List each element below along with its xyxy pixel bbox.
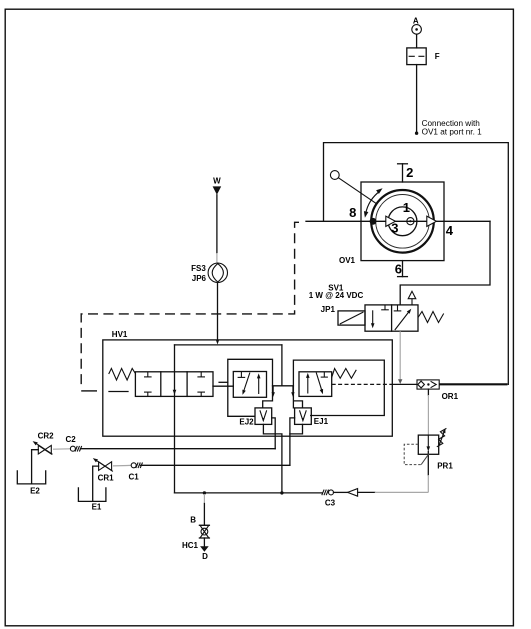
node A	[412, 17, 422, 35]
svg-text:3: 3	[391, 221, 398, 236]
PR1 adjustable spring	[437, 428, 447, 446]
svg-text:4: 4	[446, 223, 454, 238]
wire pilot line solid into OR1 left	[392, 383, 417, 385]
wire F down to connection point	[415, 65, 418, 135]
junction at HC1 drop	[203, 491, 206, 494]
svg-text:C2: C2	[65, 435, 76, 444]
check valve CR2	[33, 432, 55, 455]
wire loop around pilot valve 2 (EJ1 branch)	[293, 360, 384, 415]
junction at EJ2 drain	[280, 491, 283, 494]
pilot arrow into valve EJ2 side	[272, 386, 275, 397]
pilot valve 2 (right) body	[299, 372, 332, 397]
dashed enclosure boundary	[81, 222, 299, 386]
SV1 left cell blocked port T	[381, 305, 389, 310]
svg-text:F: F	[435, 52, 440, 61]
node: filled dot on left of OV1 circle	[370, 218, 377, 225]
wire EJ2 bottom to drain	[263, 424, 282, 493]
coupling C3	[322, 490, 336, 508]
SV1 left cell down arrow	[371, 310, 375, 328]
svg-text:CR1: CR1	[98, 474, 115, 483]
pilot valve 1 (left) body	[233, 372, 266, 398]
OV1 center port symbol (port 1)	[407, 218, 414, 225]
wire CR2 to tank E2	[32, 450, 39, 484]
valve HV1 main spool (3-position)	[135, 372, 213, 397]
wire C2 line to EJ2	[81, 448, 276, 450]
PR1 internal flow arrow	[427, 435, 431, 451]
flow indicator FS3 / JP6	[191, 263, 227, 283]
main spool seat line	[109, 391, 128, 393]
wire A to F	[416, 34, 418, 48]
dashed pilot line to OR1	[332, 383, 393, 385]
wire pilot supply header inside HV1	[175, 344, 282, 346]
wire pilot cross connection	[273, 385, 294, 387]
valve OV1 outer circle	[371, 190, 434, 253]
wire drain junction down to HC1	[203, 494, 205, 525]
wire W down to FS3	[216, 195, 218, 263]
svg-text:B: B	[190, 516, 196, 525]
SV1 vent triangle	[408, 291, 416, 305]
SV1 labels	[309, 283, 364, 314]
shuttle valve OR1	[417, 380, 439, 389]
svg-text:C3: C3	[325, 499, 336, 508]
main spool spring left	[109, 368, 136, 380]
wire OR1 output right (thick)	[439, 383, 507, 385]
svg-text:OV1 at port nr. 1: OV1 at port nr. 1	[422, 128, 483, 137]
svg-text:CR2: CR2	[38, 432, 55, 441]
pilot valve 2 diagonal arrow	[316, 373, 323, 395]
wire stub main spool right upper port	[219, 381, 228, 383]
pilot arrow into valve EJ1 side	[291, 386, 294, 397]
SV1 solenoid coil box	[338, 311, 365, 325]
OV1 port 6 stem (blocked)	[398, 261, 408, 277]
svg-text:FS3: FS3	[191, 264, 206, 273]
SV1 pilot drain wire (gray) with arrow	[398, 331, 402, 384]
check valve CR1	[93, 458, 114, 483]
svg-text:6: 6	[395, 262, 402, 277]
OV1 rotation arc arrow	[366, 191, 380, 214]
wire loop port8 - top - right side down to OR1 output	[324, 143, 509, 385]
svg-text:OR1: OR1	[442, 392, 459, 401]
tank E2	[17, 471, 45, 496]
svg-text:EJ1: EJ1	[314, 417, 329, 426]
PR1 outlet wire down	[427, 451, 429, 492]
pilot valve 2 spring right	[332, 369, 357, 379]
SV1 return spring	[418, 312, 444, 323]
OV1 operating lever with knob	[330, 171, 376, 204]
svg-text:C1: C1	[128, 473, 139, 482]
filter F	[407, 48, 440, 65]
wire EJ1 side port to C1 line	[290, 418, 295, 465]
wire check triangle to PR1 drop (part gray)	[358, 491, 429, 493]
SV1 right cell blocked port T	[394, 305, 402, 311]
svg-text:JP6: JP6	[192, 274, 207, 283]
hand valve HC1	[199, 525, 209, 538]
svg-text:OV1: OV1	[339, 256, 356, 265]
check valve triangle (flow direction)	[348, 489, 358, 497]
svg-text:1 W @ 24 VDC: 1 W @ 24 VDC	[309, 291, 364, 300]
pilot valve 1 up arrow	[257, 373, 261, 394]
OV1 port 2 stem (blocked)	[398, 164, 408, 182]
svg-text:PR1: PR1	[437, 461, 453, 470]
wire OR1 bottom to PR1 (gray)	[427, 389, 429, 435]
wire EJ2 side port to C2 line	[272, 418, 276, 449]
annotation: Connection with OV1 at port nr. 1	[422, 119, 483, 137]
svg-text:W: W	[213, 176, 221, 185]
wire loop around pilot valve 1 (EJ2 branch)	[228, 359, 273, 416]
wire CR1 to tank E1	[93, 466, 99, 501]
relief valve PR1 body	[418, 435, 438, 454]
main spool cell1 blocked ports	[144, 372, 152, 397]
svg-text:EJ2: EJ2	[239, 417, 254, 426]
main spool cell2 flow arrow	[173, 390, 177, 395]
coupling C1	[113, 463, 143, 482]
main spool cell3 blocked ports	[197, 372, 205, 397]
wire main drain vertical through spool	[174, 345, 176, 493]
node W (water inlet)	[213, 176, 222, 195]
wire C3 to check triangle	[334, 491, 348, 493]
wire bottom drain line	[175, 492, 322, 494]
pilot valve 2 up arrow	[306, 373, 310, 394]
pilot valve 1 diagonal arrow	[242, 373, 250, 395]
OV1 port number labels	[349, 165, 454, 276]
wire EJ1 bottom to side branch	[290, 424, 303, 434]
svg-text:2: 2	[406, 165, 413, 180]
wire FS3 down into HV1 with arrow	[216, 283, 220, 345]
drain outlet D arrow	[200, 538, 209, 552]
svg-text:1: 1	[403, 200, 410, 215]
wire main spool to pilot valve EJ2 side	[213, 385, 233, 387]
svg-text:Connection with: Connection with	[422, 119, 481, 128]
coupling C2	[53, 435, 82, 452]
wire port 4 to SV1 pilot	[400, 221, 490, 305]
pilot valve 2 blocked port T	[321, 372, 328, 377]
OV1 flow triangle right (port 4)	[427, 216, 437, 226]
valve OV1 body square	[361, 182, 444, 261]
pilot valve 1 blocked port T	[238, 372, 246, 378]
tank E1	[78, 488, 106, 512]
wire port 8 / port 4 main line through OV1	[306, 220, 490, 222]
svg-text:D: D	[202, 552, 208, 561]
svg-text:JP1: JP1	[321, 305, 336, 314]
valve OV1 inner circle	[388, 207, 417, 236]
svg-text:E2: E2	[30, 486, 40, 495]
SV1 right cell flow arrow	[395, 309, 412, 330]
svg-text:E1: E1	[92, 502, 102, 511]
svg-text:8: 8	[349, 205, 356, 220]
wire C1 line to EJ1	[141, 464, 290, 466]
ejector EJ1	[295, 408, 312, 425]
svg-text:A: A	[413, 17, 419, 26]
ejector EJ2	[255, 408, 272, 425]
HV1 block outline	[103, 340, 393, 436]
PR1 pilot sense dashed loop	[404, 444, 429, 464]
svg-text:HC1: HC1	[182, 541, 199, 550]
OV1 flow triangle left (port 3)	[386, 216, 396, 226]
wire pilot supply drop to pilot valves	[281, 345, 283, 386]
svg-text:HV1: HV1	[112, 330, 128, 339]
valve OV1 thin ring	[376, 195, 430, 249]
valve SV1 body	[365, 305, 418, 331]
